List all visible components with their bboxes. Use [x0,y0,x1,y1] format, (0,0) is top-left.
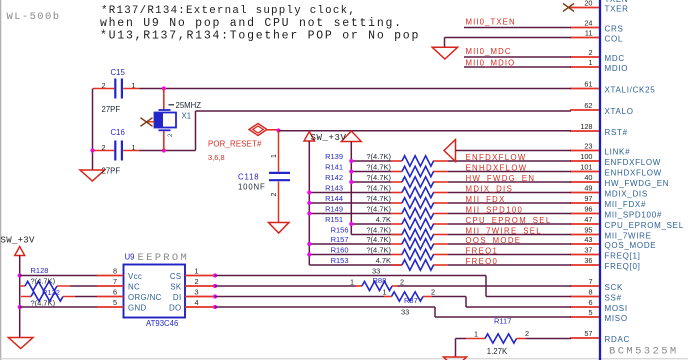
svg-text:2: 2 [525,329,529,338]
junction dot U9 pin 2 [213,284,217,288]
wire XTALO jog [196,111,572,151]
resistor R149 [402,208,434,218]
pin MII_SPD100# (96) [570,205,662,220]
svg-text:37: 37 [584,246,592,255]
crystal X1 [155,89,177,151]
pin MDIO (1) [570,58,628,73]
svg-text:49: 49 [584,184,592,193]
svg-text:7: 7 [588,277,592,286]
svg-text:?(4.7K): ?(4.7K) [31,277,56,286]
svg-text:1: 1 [383,288,387,297]
U9 pin 5 GND [97,298,147,312]
wire COL to ground arrow [445,38,572,48]
pin XTALO (62) [570,101,634,116]
junction dot crystal bottom [162,148,166,152]
svg-text:27PF: 27PF [102,105,121,114]
svg-text:MISO: MISO [605,314,628,323]
svg-text:U9: U9 [125,253,135,262]
svg-text:?(4.7K): ?(4.7K) [366,225,391,234]
resistor R141 [402,166,434,176]
pin ENHDXFLOW (101) [570,163,662,178]
no-connect X on crystal case pin [141,118,155,127]
svg-text:?(4.7K): ?(4.7K) [31,299,56,308]
wire RDAC with R117 [456,339,572,358]
resistor R144 [402,198,434,208]
rail 1 (left) vertical [309,141,402,265]
U9 pin 7 NC [97,277,140,291]
resistor R117 [485,334,517,343]
svg-text:CPU_EPROM_SEL: CPU_EPROM_SEL [605,221,684,230]
svg-text:XTALO: XTALO [605,107,634,116]
junction dot rail1 R143 [307,190,311,194]
resistor R88 [362,281,392,290]
svg-text:61: 61 [584,80,592,89]
svg-text:HW_FWDG_EN: HW_FWDG_EN [466,174,536,183]
svg-text:R144: R144 [325,194,343,203]
wire DI to MOSI with R87 [215,297,571,308]
pin MII_FDX# (97) [570,194,646,209]
pin CPU_EPROM_SEL (47) [570,215,684,230]
wire strap row ENFDXFLOW [351,160,571,162]
svg-text:SK: SK [170,282,182,291]
svg-text:ORG/NC: ORG/NC [128,293,162,302]
svg-text:MDIO: MDIO [605,64,629,73]
svg-text:when U9 No pop and CPU not set: when U9 No pop and CPU not setting. [100,17,403,30]
svg-text:2: 2 [102,81,106,90]
ground below R117 (clipped) [444,357,467,360]
svg-text:C15: C15 [111,68,126,77]
junction dot rail2 R151 [349,222,353,226]
pin QOS_MODE (43) [570,235,656,250]
svg-text:FREQ[0]: FREQ[0] [605,262,641,271]
svg-text:?(4.7K): ?(4.7K) [366,204,391,213]
pin ENFDXFLOW (100) [570,152,661,167]
svg-text:COL: COL [605,34,624,43]
svg-text:2: 2 [400,278,404,287]
svg-text:1: 1 [271,154,278,158]
svg-text:20: 20 [584,0,592,8]
svg-text:2: 2 [195,277,199,286]
pin SS# (8) [570,288,622,303]
svg-text:101: 101 [580,163,592,172]
svg-text:5: 5 [113,298,117,307]
no-connect X on TXER [563,3,574,11]
resistor R128 [20,281,97,290]
off-page connector POR_RESET# [249,124,279,136]
svg-text:*U13,R137,R134:Together POP or: *U13,R137,R134:Together POP or No pop [100,30,420,43]
svg-text:128: 128 [580,122,592,131]
svg-text:36: 36 [584,256,592,265]
svg-text:40: 40 [584,173,592,182]
svg-text:MII0_TXEN: MII0_TXEN [466,18,516,27]
svg-text:C118: C118 [238,173,259,182]
svg-text:3,6,8: 3,6,8 [208,153,225,162]
svg-text:POR_RESET#: POR_RESET# [208,140,262,149]
svg-text:4.7K: 4.7K [376,215,391,224]
svg-text:C16: C16 [111,128,125,137]
junction dot XTALI crystal top [162,86,166,90]
op chip BCM5325M body edge [599,0,601,360]
capacitor C15 [93,79,122,99]
sheet border left edge [0,0,2,360]
value 25MHZ of X1 [169,101,202,110]
pin TXER (20) [570,0,629,13]
junction dot rail1 R149 [307,211,311,215]
svg-text:LINK#: LINK# [605,147,631,156]
svg-text:MII_SPD100: MII_SPD100 [466,205,524,214]
resistor R132 [21,292,97,301]
wire DO to MISO [215,307,571,317]
wire strap row MII_FDX [309,202,571,204]
svg-text:?(4.7K): ?(4.7K) [366,162,391,171]
wire MII0_MDIO to MDIO [464,66,571,68]
svg-text:MII_FDX#: MII_FDX# [605,200,647,209]
svg-text:CPU_EPROM_SEL: CPU_EPROM_SEL [466,216,552,225]
svg-text:1: 1 [195,267,199,276]
svg-text:R143: R143 [325,183,343,192]
resistor R87 [392,292,424,301]
svg-text:MDIX_DIS: MDIX_DIS [466,184,514,193]
svg-text:33: 33 [372,267,380,276]
wire strap row QOS_MODE [309,243,571,245]
svg-text:97: 97 [584,194,592,203]
wire strap row MII_7WIRE_SEL [391,234,571,236]
svg-text:SW_+3V: SW_+3V [311,133,347,143]
resistor R151 [402,219,434,229]
svg-text:4.7K: 4.7K [376,256,391,265]
sheet border bottom edge [0,358,688,360]
svg-text:2: 2 [588,48,592,57]
svg-text:47: 47 [584,215,592,224]
svg-text:MOSI: MOSI [605,304,628,313]
svg-text:Vcc: Vcc [128,272,142,281]
wire XTALI net [123,88,571,90]
svg-text:8: 8 [588,288,592,297]
pin MOSI (6) [570,298,628,313]
svg-text:43: 43 [584,235,592,244]
U9 pin 6 ORG/NC [97,288,162,302]
wire left rail C15/C16 to ground [92,89,94,171]
svg-text:6: 6 [588,298,592,307]
junction dot rail2 R142 [349,180,353,184]
svg-text:11: 11 [585,29,593,38]
pin MDC (2) [570,48,625,63]
svg-text:EEPROM: EEPROM [138,252,190,264]
junction dot rail1 R160 [307,252,311,256]
svg-text:5: 5 [588,308,592,317]
svg-text:?(4.7K): ?(4.7K) [366,194,391,203]
wire MII0_MDC to MDC [464,56,571,58]
wire left +3V rail [19,256,21,338]
svg-text:1: 1 [132,81,136,90]
resistor R157 [402,239,434,249]
U9 pin 1 CS [170,267,215,281]
wire strap row MDIX_DIS [309,192,571,194]
svg-text:GND: GND [128,303,147,312]
resistor R143 [402,187,434,197]
power SW_+3V arrow left rail [304,132,315,142]
junction dot U9 pin 4 [213,305,217,309]
svg-text:?(4.7K): ?(4.7K) [366,235,391,244]
svg-text:96: 96 [584,205,592,214]
svg-text:1: 1 [474,330,478,339]
svg-text:MII_SPD100#: MII_SPD100# [605,210,663,219]
wire strap row FREQ1 [309,254,571,256]
svg-text:SS#: SS# [605,293,622,302]
svg-text:R128: R128 [31,266,49,275]
svg-text:R87: R87 [404,296,418,305]
ground below C15/C16 [80,170,105,181]
svg-text:2: 2 [431,288,435,297]
svg-text:33: 33 [401,308,409,317]
wire strap row ENHDXFLOW [351,171,571,173]
ground arrow on COL [432,47,457,59]
wire RST# [279,130,572,132]
pin SCK (7) [570,277,623,292]
junction dot rail2 R139 [349,159,353,163]
svg-text:R142: R142 [325,173,343,182]
wire strap row CPU_EPROM_SEL [351,223,571,225]
svg-text:?(4.7K): ?(4.7K) [366,183,391,192]
svg-text:R157: R157 [331,235,349,244]
svg-text:SW_+3V: SW_+3V [1,236,36,246]
svg-text:6: 6 [113,288,117,297]
wire MII0_TXEN to CRS [464,27,571,29]
svg-text:DI: DI [173,293,182,302]
resistor R156 [402,229,434,239]
pin CRS (24) [570,19,624,34]
junction dot rail1 R144 [307,201,311,205]
pin MII_7WIRE (95) [570,226,652,241]
svg-text:ENHDXFLOW: ENHDXFLOW [605,168,662,177]
junction dot C16 row [90,148,94,152]
svg-text:ENHDXFLOW: ENHDXFLOW [466,163,528,172]
wire strap row MII_SPD100 [309,213,571,215]
svg-text:27PF: 27PF [102,167,121,176]
svg-text:25MHZ: 25MHZ [176,101,202,110]
pin RDAC (57) [570,329,630,344]
svg-text:1: 1 [132,143,136,152]
svg-text:R151: R151 [325,215,343,224]
svg-text:23: 23 [584,142,592,151]
port arrow on LINK# wire [444,140,456,162]
svg-text:FREQ1: FREQ1 [466,246,499,255]
resistor R153 [402,260,434,270]
svg-text:DO: DO [169,303,182,312]
wire LINK# [456,150,572,152]
junction dot rail2 R141 [349,169,353,173]
U9 pin 3 DI [173,288,215,302]
wire strap row FREQ0 [391,264,571,266]
resistor R160 [402,249,434,259]
svg-text:R153: R153 [331,256,349,265]
svg-text:100: 100 [580,152,592,161]
svg-text:R117: R117 [494,317,511,326]
svg-text:ENFDXFLOW: ENFDXFLOW [605,158,662,167]
pin HW_FWDG_EN (40) [570,173,669,188]
resistor R139 [402,156,434,166]
svg-text:X1: X1 [182,112,192,121]
U9 pin 4 DO [169,298,215,312]
junction dot RST node [276,128,280,132]
junction dot rail1 R157 [307,242,311,246]
svg-text:WL-500b: WL-500b [7,11,61,23]
svg-text:4: 4 [195,298,199,307]
svg-text:?(4.7K): ?(4.7K) [366,152,391,161]
svg-text:2: 2 [102,143,106,152]
power SW_+3V arrow (left) [15,247,25,256]
svg-text:1: 1 [588,58,592,67]
svg-text:TXEN: TXEN [605,0,629,4]
svg-text:2: 2 [271,193,278,197]
pin FREQ[0] (36) [570,256,641,271]
pin MISO (5) [570,308,628,323]
svg-text:XTALI/CK25: XTALI/CK25 [605,85,656,94]
ground below C118 [269,223,289,234]
power SW_+3V arrow right rail [341,131,361,142]
pin XTALI/CK25 (61) [570,80,655,95]
svg-text:MII_7WIRE_SEL: MII_7WIRE_SEL [466,226,542,235]
svg-text:*R137/R134:External supply clo: *R137/R134:External supply clock, [101,5,356,17]
svg-text:SCK: SCK [605,283,624,292]
pin MDIX_DIS (49) [570,184,648,199]
pin COL (11) [570,29,623,44]
wire RST node down to C118 [278,131,280,172]
svg-text:RDAC: RDAC [605,335,630,344]
svg-text:CRS: CRS [605,24,624,33]
pin LINK# (23) [570,142,630,157]
svg-text:BCM5325M: BCM5325M [609,346,679,358]
svg-text:AT93C46: AT93C46 [146,319,178,328]
svg-text:24: 24 [584,19,592,28]
svg-text:CS: CS [170,272,182,281]
svg-text:MII0_MDC: MII0_MDC [466,47,512,56]
svg-text:R149: R149 [325,204,343,213]
wire Vcc row [20,275,97,277]
U9 pin 8 Vcc [97,267,142,281]
junction dot GND row [18,305,22,309]
junction dot Vcc row [18,273,22,277]
U9 pin 2 SK [170,277,215,291]
svg-text:57: 57 [584,329,592,338]
junction dot U9 pin 1 [213,273,217,277]
svg-text:MDIX_DIS: MDIX_DIS [605,189,648,198]
wire C16 to crystal bottom junction [140,150,196,152]
svg-text:FREQ[1]: FREQ[1] [605,251,641,260]
svg-text:NC: NC [128,282,140,291]
resistor R142 [402,177,434,187]
capacitor C16 [93,141,140,161]
svg-text:1: 1 [350,278,354,287]
svg-text:MII_FDX: MII_FDX [466,195,506,204]
wire strap row HW_FWDG_EN [351,181,571,183]
wire GND row [20,306,97,308]
junction dot U9 pin 3 [213,294,217,298]
svg-text:QOS_MODE: QOS_MODE [466,236,522,245]
pin FREQ[1] (37) [570,246,641,261]
svg-text:R160: R160 [331,245,349,254]
svg-text:3: 3 [195,288,199,297]
eeprom U9 body [124,265,186,318]
capacitor C118 [269,173,290,223]
svg-text:ENFDXFLOW: ENFDXFLOW [466,153,527,162]
svg-text:?(4.7K): ?(4.7K) [366,173,391,182]
ground bottom left [8,338,33,349]
svg-text:R141: R141 [325,162,343,171]
svg-text:MII_7WIRE: MII_7WIRE [605,231,652,240]
svg-text:R139: R139 [325,152,343,161]
svg-text:HW_FWDG_EN: HW_FWDG_EN [605,179,670,188]
svg-text:62: 62 [584,101,592,110]
svg-text:MII0_MDIO: MII0_MDIO [466,59,516,68]
svg-text:FREQ0: FREQ0 [466,257,499,266]
svg-text:95: 95 [584,226,592,235]
wire CS to SS# [215,276,571,297]
svg-text:7: 7 [113,277,117,286]
pin RST# (128) [570,122,628,137]
svg-text:QOS_MODE: QOS_MODE [605,241,657,250]
svg-text:MDC: MDC [605,54,625,63]
svg-text:R88: R88 [373,276,387,285]
svg-text:8: 8 [113,267,117,276]
svg-text:TXER: TXER [605,4,629,13]
rail 2 (right) vertical [351,142,402,235]
wire SK to SCK with R88 [215,285,571,287]
svg-text:R156: R156 [331,225,349,234]
svg-text:?(4.7K): ?(4.7K) [366,245,391,254]
svg-text:R132: R132 [42,288,60,297]
svg-text:RST#: RST# [605,128,628,137]
svg-text:1.27K: 1.27K [487,347,508,356]
svg-text:100NF: 100NF [238,183,266,192]
